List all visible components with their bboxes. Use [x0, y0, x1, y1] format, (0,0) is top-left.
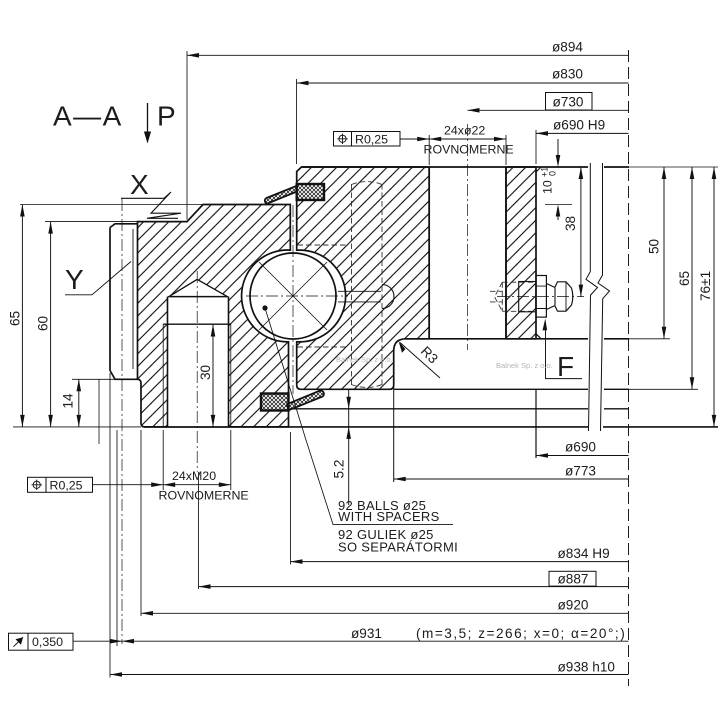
dimension ⌀830 — [297, 67, 629, 165]
dimension 24xM20 with position frame (bottom) — [28, 430, 249, 503]
lower seal — [261, 391, 324, 411]
gear tooth strip (left ring outer surface, unsectioned) — [110, 199, 138, 644]
svg-text:ø690 H9: ø690 H9 — [553, 118, 605, 133]
right ring (inner ring) hatched section, block A (raceway to bolt hole) — [297, 167, 430, 389]
filler plug hole (hidden) in right ring — [352, 182, 383, 388]
dimension ⌀920 — [141, 430, 629, 616]
detail label Y with leader — [65, 262, 131, 296]
dimension 60 — [36, 222, 138, 427]
dimension ⌀834 H9 — [291, 432, 629, 565]
svg-text:SO SEPARÁTORMI: SO SEPARÁTORMI — [338, 540, 458, 555]
dimension 5.2 — [332, 389, 352, 505]
band edge verticals — [535, 389, 537, 458]
dimension ⌀773 — [394, 464, 629, 482]
section direction arrow P — [144, 101, 176, 144]
dimension 38 — [563, 167, 583, 297]
svg-text:76±1: 76±1 — [698, 271, 713, 301]
left ring (geared ring) hatched section — [138, 205, 291, 427]
svg-text:50: 50 — [647, 238, 662, 254]
dimension 65 (left) — [8, 205, 204, 427]
svg-text:Balnek Sp. z o.o.: Balnek Sp. z o.o. — [336, 355, 393, 364]
dimension 76±1 — [629, 167, 718, 427]
dimension ⌀690 H9 (top) — [536, 118, 629, 165]
svg-text:A—A: A—A — [53, 101, 123, 132]
svg-text:Balnek Sp. z o.o.: Balnek Sp. z o.o. — [496, 361, 553, 370]
svg-text:F: F — [557, 351, 574, 382]
position tolerance frame R0,25 (top) — [334, 132, 401, 147]
svg-text:60: 60 — [36, 315, 51, 331]
right ring bottom face at gear rim — [406, 338, 629, 340]
svg-text:ø920: ø920 — [558, 597, 589, 612]
svg-text:ø730: ø730 — [553, 95, 584, 110]
svg-text:Y: Y — [65, 264, 84, 295]
grease fitting tapped hole (hidden lines) — [490, 282, 536, 311]
upper seal — [265, 184, 324, 204]
dimension ⌀887 (framed) — [199, 472, 629, 589]
svg-text:ROVNOMERNE: ROVNOMERNE — [159, 489, 249, 503]
svg-text:R0,25: R0,25 — [50, 479, 83, 493]
svg-text:WITH SPACERS: WITH SPACERS — [338, 509, 440, 524]
svg-text:(m=3,5; z=266; x=0; α=20°;): (m=3,5; z=266; x=0; α=20°;) — [416, 626, 626, 641]
ball centerlines — [246, 295, 348, 297]
left ring bottom face extended — [144, 426, 718, 428]
extension line at x=628.5 (dimension terminator, dashed) — [628, 50, 630, 686]
right ring top face — [302, 166, 630, 168]
label R3 with leader — [399, 341, 441, 378]
svg-text:0: 0 — [548, 171, 558, 176]
dimension ⌀894 — [187, 40, 629, 220]
M20 hole centerline — [196, 271, 198, 472]
gear pitch line (dash-dot) — [121, 199, 123, 644]
svg-text:65: 65 — [677, 271, 692, 286]
svg-text:ø931: ø931 — [351, 626, 382, 641]
dimension 30 (thread depth) — [198, 325, 215, 427]
svg-text:ø830: ø830 — [552, 67, 583, 82]
note: 92 balls with spacers — [265, 308, 458, 555]
svg-text:65: 65 — [8, 311, 23, 326]
dimension ⌀730 (framed) — [468, 93, 629, 113]
detail label X with zigzag — [121, 169, 181, 218]
bolt hole 24x⌀22 in right ring (through hole) — [429, 167, 506, 339]
ball (92 balls ⌀25) — [246, 205, 348, 394]
label F with leader — [543, 319, 583, 383]
dimension 65 (right) — [604, 167, 698, 389]
svg-text:38: 38 — [563, 216, 578, 231]
dimension 24x⌀22 with position frame — [334, 124, 514, 166]
svg-text:14: 14 — [61, 393, 76, 409]
svg-text:ø938 h10: ø938 h10 — [558, 660, 616, 675]
grease passage to raceway — [338, 285, 394, 309]
svg-text:24xM20: 24xM20 — [172, 469, 216, 483]
dimension 50 — [604, 167, 670, 339]
raceway hidden edge lines — [298, 245, 349, 347]
svg-text:ø690: ø690 — [565, 440, 596, 455]
svg-text:ø834 H9: ø834 H9 — [558, 546, 610, 561]
dimension ⌀931 with gear data — [122, 626, 629, 644]
dimension 10+1/0 — [540, 139, 573, 220]
svg-text:ø887: ø887 — [558, 571, 589, 586]
⌀22 hole centerline — [467, 124, 469, 350]
extension line x=99 — [98, 379, 100, 444]
svg-text:P: P — [157, 101, 176, 132]
support band lines below right ring — [394, 388, 629, 390]
svg-text:0,350: 0,350 — [32, 635, 63, 649]
dimension ⌀938 h10 — [110, 373, 629, 678]
svg-text:30: 30 — [198, 364, 213, 380]
svg-text:ø894: ø894 — [552, 40, 583, 55]
svg-text:10: 10 — [541, 180, 555, 194]
break lines (wavy) with white infill — [586, 163, 610, 431]
runout flag 0,350 — [9, 430, 123, 650]
svg-text:24xø22: 24xø22 — [444, 124, 485, 138]
bolt hole 24xM20 in left ring (tapped hole, section) — [163, 279, 231, 427]
dimension 14 — [61, 379, 138, 427]
svg-text:5.2: 5.2 — [332, 460, 347, 479]
dimension ⌀690 (bottom) — [536, 440, 629, 458]
svg-text:ø773: ø773 — [565, 464, 596, 479]
grease fitting F — [497, 276, 584, 318]
svg-text:ROVNOMERNE: ROVNOMERNE — [424, 143, 514, 157]
leader dot on ball — [262, 305, 267, 310]
right ring hatched section, block B (between bolt hole and bore) — [506, 167, 541, 339]
svg-text:R0,25: R0,25 — [355, 133, 388, 147]
svg-text:X: X — [130, 169, 149, 200]
